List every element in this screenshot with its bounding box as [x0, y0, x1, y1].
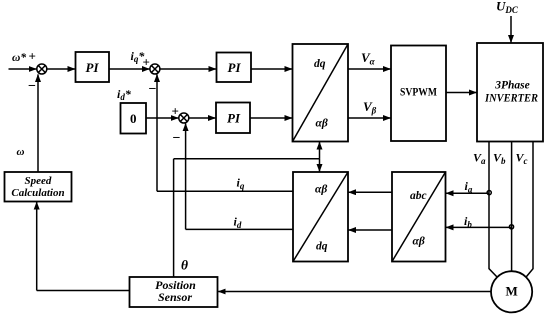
svg-text:abc: abc — [410, 190, 427, 202]
block PI2 — [217, 53, 252, 83]
svg-text:ω*: ω* — [12, 52, 26, 64]
wire iq feedback horizontal — [157, 190, 293, 192]
wire ia into abc block — [446, 192, 489, 194]
wire PI1 to junction 2 — [109, 68, 150, 70]
svg-text:Vα: Vα — [361, 50, 376, 67]
wire phase Va — [489, 142, 497, 278]
svg-text:+: + — [29, 49, 36, 64]
wire theta vertical up into dq-ab block — [319, 142, 321, 159]
block SVPWM — [391, 46, 446, 142]
wire id feedback vertical into junction 3 — [185, 123, 187, 229]
node tap ib on Vb line — [509, 225, 513, 229]
diagonal of abc block — [392, 172, 446, 262]
wire PI3 to dq-ab block — [250, 117, 292, 119]
svg-text:M: M — [505, 284, 517, 299]
block position sensor — [130, 277, 218, 307]
summing junction 1 — [37, 64, 47, 74]
wire abc block to ab-dq block lower — [348, 229, 392, 231]
svg-text:αβ: αβ — [413, 236, 425, 248]
block dq to alpha-beta transform — [293, 44, 349, 142]
wire theta horizontal — [174, 158, 320, 160]
wire phase Vb — [511, 142, 513, 272]
svg-text:PI: PI — [86, 60, 100, 75]
block alpha-beta to dq transform — [293, 172, 348, 262]
svg-text:Vb: Vb — [493, 151, 506, 167]
svg-text:PI: PI — [227, 111, 241, 126]
block PI3 — [216, 103, 250, 134]
svg-text:SVPWM: SVPWM — [400, 87, 437, 99]
wire SVPWM to inverter — [446, 92, 477, 94]
svg-text:Vβ: Vβ — [363, 99, 377, 116]
wire U_DC into inverter — [510, 16, 512, 43]
wire id feedback horizontal — [186, 228, 293, 230]
wire junction2 to PI2 — [160, 68, 216, 70]
block zero reference — [121, 103, 147, 134]
wire junction3 to PI3 — [189, 117, 216, 119]
wire theta vertical from position sensor — [173, 159, 175, 277]
svg-text:Sensor: Sensor — [158, 290, 192, 304]
svg-text:dq: dq — [314, 58, 326, 70]
svg-text:0: 0 — [130, 111, 137, 126]
svg-text:−: − — [28, 79, 36, 94]
wire speed calculation to junction 1 — [37, 74, 39, 172]
wire ib into abc block — [446, 226, 512, 228]
wire V-beta to SVPWM — [348, 117, 391, 119]
svg-text:Speed: Speed — [25, 175, 52, 187]
wire zero to junction 3 — [146, 117, 178, 119]
svg-text:id: id — [234, 215, 242, 231]
node tap ia on Va line — [487, 191, 491, 195]
svg-text:+: + — [172, 104, 179, 119]
diagonal of ab-dq block — [293, 172, 348, 262]
svg-text:+: + — [143, 55, 150, 70]
wire phase Vc — [526, 142, 533, 278]
summing junction 3 — [179, 113, 189, 123]
svg-text:−: − — [173, 131, 181, 146]
svg-text:ia: ia — [465, 179, 473, 195]
block speed calculation — [5, 172, 72, 202]
svg-text:UDC: UDC — [496, 0, 519, 15]
wire motor to position sensor — [218, 291, 491, 293]
svg-text:id*: id* — [117, 87, 132, 102]
wire iq feedback vertical into junction 2 — [156, 74, 158, 191]
diagonal of dq-ab block — [293, 44, 349, 142]
wire theta vertical down into ab-dq block — [319, 159, 321, 172]
wire junction1 to PI1 — [47, 68, 76, 70]
svg-text:INVERTER: INVERTER — [484, 93, 538, 105]
svg-text:θ: θ — [181, 258, 188, 273]
svg-text:Vc: Vc — [516, 151, 528, 167]
svg-text:Va: Va — [473, 151, 486, 167]
svg-text:dq: dq — [316, 241, 328, 253]
svg-text:−: − — [149, 82, 157, 97]
wire position sensor to speed calculation vertical — [36, 202, 38, 291]
wire position sensor to speed calculation horizontal — [37, 290, 130, 292]
wire omega* input — [9, 68, 37, 70]
svg-text:ω: ω — [17, 146, 25, 158]
motor M — [491, 271, 532, 312]
svg-text:αβ: αβ — [315, 184, 327, 196]
svg-text:iq: iq — [237, 176, 245, 192]
svg-text:3Phase: 3Phase — [494, 80, 530, 92]
block PI1 — [76, 52, 110, 82]
wire V-alpha to SVPWM — [348, 68, 391, 70]
svg-text:PI: PI — [228, 60, 242, 75]
summing junction 2 — [150, 64, 160, 74]
wire PI2 to dq-ab block — [251, 68, 292, 70]
block abc to alpha-beta transform — [392, 172, 446, 262]
svg-text:αβ: αβ — [316, 118, 328, 130]
block 3-phase inverter — [477, 43, 543, 142]
svg-text:Calculation: Calculation — [11, 187, 64, 199]
wire abc block to ab-dq block upper — [348, 191, 392, 193]
